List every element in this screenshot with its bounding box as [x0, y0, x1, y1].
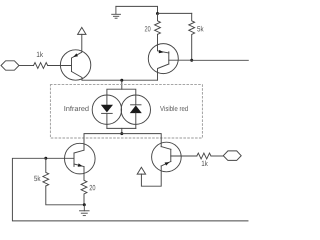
- transistor Q2: [148, 34, 191, 80]
- value label 1k: [37, 51, 43, 57]
- resistor R5k top: [189, 13, 195, 60]
- connector (left hexagon): [1, 61, 19, 70]
- node dot (bottom LED node): [120, 132, 123, 135]
- node dot (top rail): [156, 12, 159, 15]
- ground (top): [112, 6, 121, 18]
- resistor R20 bottom: [81, 167, 87, 205]
- wire (output to right edge): [192, 59, 249, 61]
- wire (LED top bus): [107, 89, 136, 105]
- wire (LED bottom bus): [107, 127, 136, 129]
- value label 5k: [197, 26, 203, 32]
- transistor Q4: [152, 142, 197, 172]
- supply arrow (Q1 emitter): [78, 27, 86, 34]
- resistor R1k right: [197, 153, 211, 159]
- node dot (ground node): [83, 203, 86, 206]
- resistor R20 top: [155, 14, 161, 35]
- LED D2 visible red: [121, 95, 150, 128]
- wire (node to R5k top): [158, 12, 192, 14]
- label Visible red: [160, 106, 188, 111]
- wire (R1k to right hexagon): [211, 155, 223, 157]
- node dot (output node): [190, 59, 193, 62]
- transistor Q1: [60, 34, 90, 80]
- wire (node to Q3 collector): [84, 134, 122, 151]
- label Infrared: [64, 106, 88, 111]
- ground (bottom): [80, 205, 90, 216]
- resistor R5k bottom: [43, 158, 49, 186]
- wire (base node to left rail and bottom rail): [12, 158, 248, 221]
- wire (Q4 emitter loop): [141, 166, 161, 186]
- wire (collector bus Q1-Q2): [82, 79, 158, 81]
- node dot (top LED node): [120, 79, 123, 82]
- wire (R1k to Q1 base): [48, 65, 72, 67]
- wire (bus center tap): [121, 128, 123, 133]
- LED D1 infrared: [92, 95, 121, 128]
- value label 1k: [202, 160, 208, 166]
- transistor Q3: [46, 143, 95, 174]
- resistor R1k left: [34, 63, 48, 69]
- wire (hexagon to R1k): [19, 65, 34, 67]
- value label 5k: [34, 175, 40, 181]
- wire (top ground to node): [116, 6, 158, 13]
- node dot (Q3 base node): [44, 157, 47, 160]
- value label 20: [90, 185, 96, 190]
- value label 20: [145, 26, 151, 31]
- supply arrow (Q4 emitter): [137, 167, 145, 174]
- connector (right hexagon): [223, 151, 241, 161]
- dashed box (LED module): [50, 85, 202, 138]
- wire (R5k bottom to ground node): [46, 186, 85, 205]
- wire (node down to LED top bus): [121, 80, 123, 89]
- wire (node to Q4 collector): [122, 134, 161, 147]
